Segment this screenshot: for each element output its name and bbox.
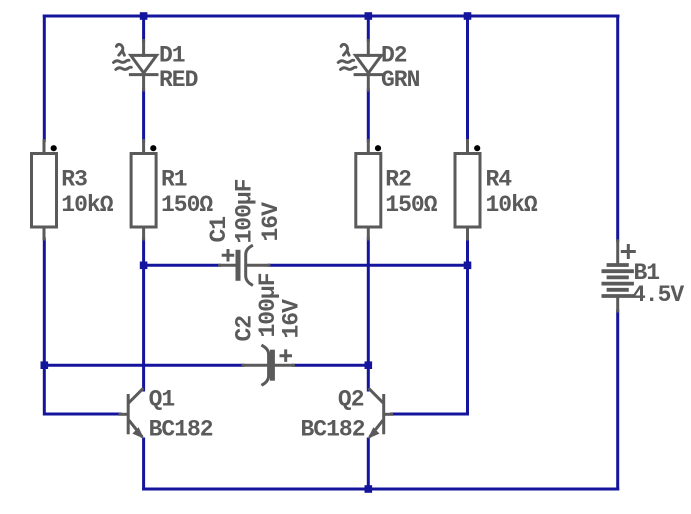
wire right rail [616, 16, 619, 489]
capacitor C1 [220, 246, 269, 285]
svg-text:R4: R4 [486, 167, 513, 193]
plus C1 [223, 251, 233, 261]
svg-text:16V: 16V [258, 202, 284, 242]
svg-text:10kΩ: 10kΩ [486, 192, 538, 218]
resistor R4 [455, 141, 480, 240]
capacitor C2 [243, 346, 293, 385]
svg-text:R1: R1 [161, 167, 187, 193]
LED D1 [130, 41, 157, 91]
resistor R2 [356, 141, 381, 240]
svg-text:10kΩ: 10kΩ [61, 192, 113, 218]
svg-text:4.5V: 4.5V [632, 282, 684, 308]
pin dot R2 [375, 145, 381, 151]
pin dot R4 [474, 145, 480, 151]
svg-text:D2: D2 [381, 43, 407, 69]
node top rail R4 [464, 12, 472, 20]
svg-text:C1: C1 [206, 217, 232, 243]
svg-text:150Ω: 150Ω [385, 192, 437, 218]
LED D2 light arrows [338, 44, 356, 69]
wire bottom rail [144, 488, 618, 491]
wire D2/R2/Q2 branch [367, 16, 370, 489]
wire R4 branch [392, 16, 468, 414]
svg-text:C2: C2 [232, 316, 258, 342]
node C1 left [140, 262, 148, 270]
battery B1 [603, 241, 632, 311]
transistor Q1 [120, 389, 142, 436]
emitter arrow Q1 [132, 427, 144, 438]
svg-text:GRN: GRN [381, 67, 420, 93]
wire top rail [44, 15, 618, 18]
LED D2 [355, 41, 382, 91]
wire C2 row [44, 364, 368, 367]
svg-text:100µF: 100µF [232, 179, 258, 243]
svg-text:R3: R3 [61, 167, 87, 193]
svg-text:150Ω: 150Ω [161, 192, 213, 218]
LED D1 light arrows [114, 44, 132, 69]
node C1 right [464, 262, 472, 270]
wire left rail [44, 16, 120, 414]
wire D1/R1/Q1 branch [142, 16, 145, 489]
node bottom rail [365, 485, 373, 493]
svg-text:RED: RED [159, 67, 198, 93]
svg-text:Q1: Q1 [149, 387, 175, 413]
node C2 left [41, 361, 49, 369]
svg-text:Q2: Q2 [338, 387, 364, 413]
plus B1 [622, 246, 634, 258]
svg-text:16V: 16V [279, 299, 305, 339]
svg-text:BC182: BC182 [300, 417, 364, 443]
emitter arrow Q2 [368, 427, 380, 438]
node top rail D1 [140, 12, 148, 20]
transistor Q2 [370, 389, 392, 436]
svg-text:100µF: 100µF [255, 273, 281, 337]
pin dot R3 [51, 145, 57, 151]
pin dot R1 [150, 145, 156, 151]
node top rail D2 [365, 12, 373, 20]
wire C1 row [144, 264, 468, 267]
node C2 right [365, 361, 373, 369]
svg-text:R2: R2 [385, 167, 411, 193]
svg-text:BC182: BC182 [149, 417, 213, 443]
svg-text:D1: D1 [159, 43, 185, 69]
resistor R1 [131, 141, 156, 240]
resistor R3 [32, 141, 57, 240]
plus C2 [281, 351, 291, 361]
